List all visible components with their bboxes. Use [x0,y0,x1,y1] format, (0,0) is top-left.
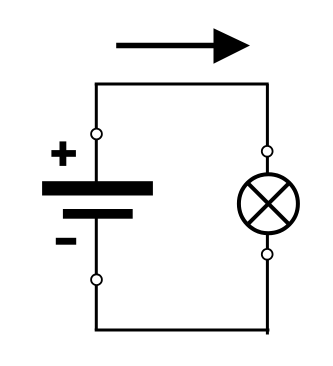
wire top [95,83,269,86]
battery BT1 minus label [56,238,76,245]
node terminal battery negative [91,274,102,285]
wire left upper (battery positive lead) [95,84,98,195]
node terminal lamp bottom [262,249,273,260]
node terminal battery positive [91,129,102,140]
current direction arrow head [214,28,251,64]
lamp L1 cross stroke 1 [248,183,290,225]
battery BT1 plus label [51,141,76,166]
lamp L1 cross stroke 2 [248,183,290,225]
node terminal lamp top [262,146,273,157]
wire right (lamp leads) [266,84,269,335]
battery BT1 positive plate [42,181,153,195]
current direction arrow shaft [116,43,216,49]
battery BT1 negative plate [63,209,133,219]
wire bottom [95,329,270,332]
lamp L1 body [239,174,298,233]
wire left lower (battery negative lead) [95,210,98,330]
